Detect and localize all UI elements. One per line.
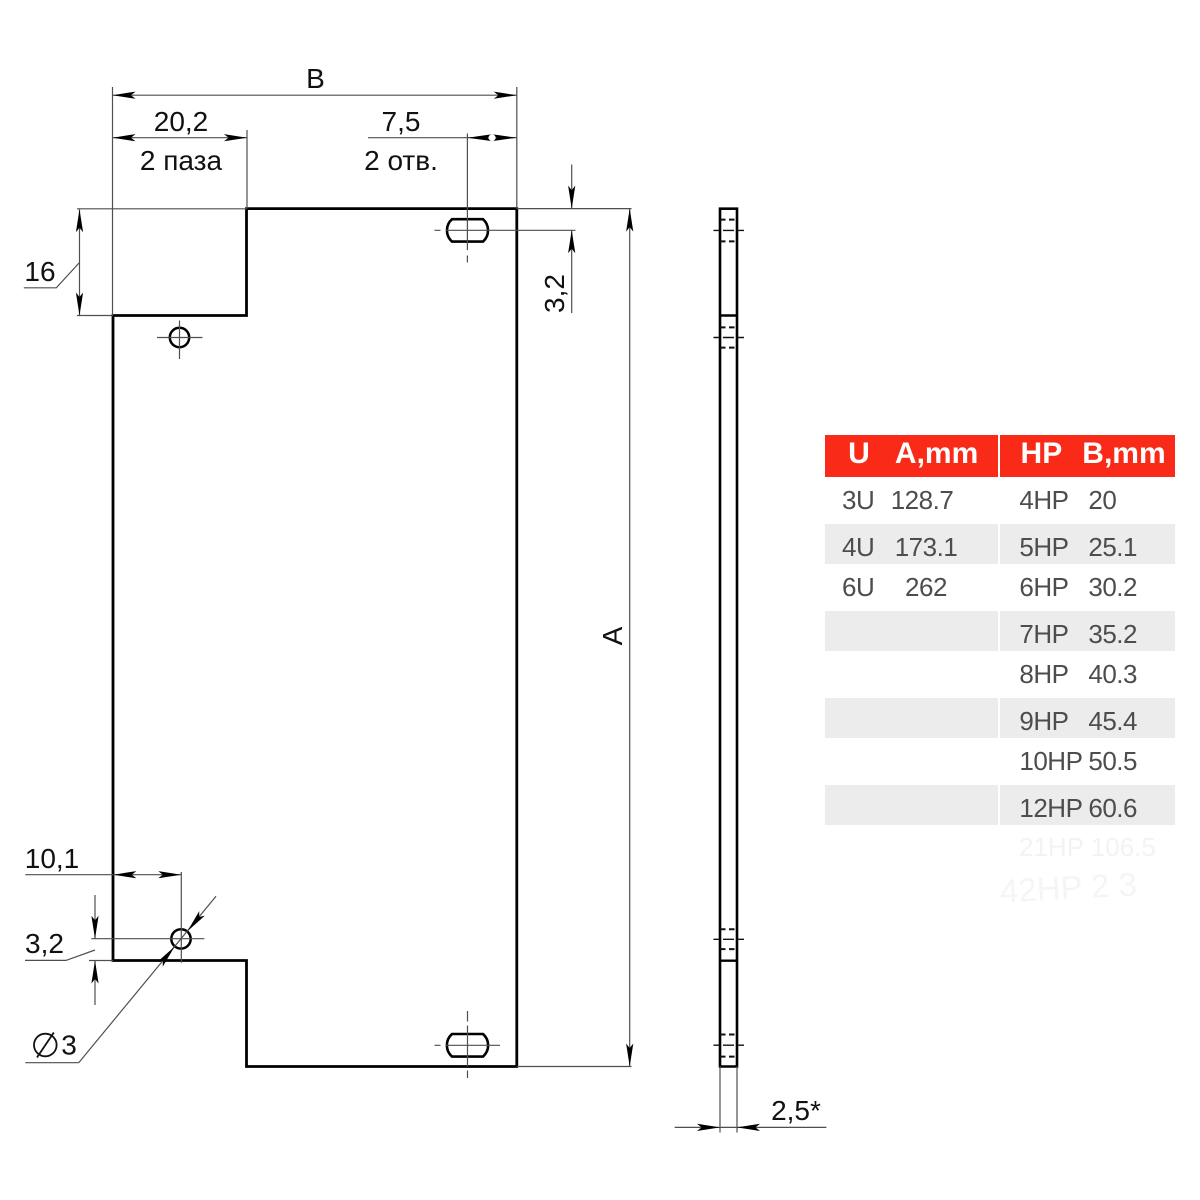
left table block: U / A,mm	[825, 434, 998, 436]
svg-text:2 отв.: 2 отв.	[364, 145, 438, 176]
dimension 16 leader	[24, 263, 80, 288]
side view hidden lines top hole	[720, 327, 737, 347]
svg-text:A: A	[597, 626, 628, 645]
dimension 3,2 bottom-left lines	[94, 895, 96, 1005]
svg-text:20,2: 20,2	[154, 106, 209, 137]
side view centerline top slot	[714, 229, 745, 231]
dimension diameter 3 label	[34, 1034, 57, 1057]
top slot centerline vertical	[466, 134, 468, 263]
svg-text:3: 3	[61, 1030, 77, 1061]
panel front view outline	[113, 209, 517, 1067]
top hole crosshair	[157, 321, 203, 360]
dimension diameter 3 leader	[25, 896, 216, 1062]
side view centerline bottom slot	[714, 1044, 745, 1046]
dimension A line	[629, 209, 631, 1067]
side view centerline bottom hole	[714, 938, 745, 940]
side view centerline top hole	[714, 337, 745, 339]
size table	[0, 0, 1, 1]
side view edge line bottom notch	[720, 960, 737, 962]
dimension 20,2 line	[113, 137, 248, 139]
bottom slot (obround hole)	[447, 1034, 488, 1057]
dimension 7,5 line	[368, 137, 517, 139]
svg-text:2,5*: 2,5*	[771, 1095, 821, 1126]
svg-text:B: B	[306, 63, 325, 94]
side view edge line top notch	[720, 314, 737, 316]
top slot centerline horizontal	[435, 229, 576, 231]
top hole (round 3mm)	[170, 328, 189, 347]
dimension 16 extension lines	[77, 209, 247, 316]
svg-text:16: 16	[24, 256, 55, 287]
dimension 16 line	[79, 210, 81, 316]
top slot (obround hole)	[447, 219, 488, 241]
dimension 2,5 line	[675, 1126, 827, 1128]
dimension 3,2 top-right extension lines	[517, 208, 632, 210]
svg-text:3,2: 3,2	[25, 928, 64, 959]
bottom slot centerline vertical	[467, 1011, 469, 1078]
bottom hole crosshair	[91, 872, 204, 963]
bottom hole (round 3mm)	[171, 929, 190, 948]
dimension 20,2 extension line	[246, 130, 248, 209]
svg-text:10,1: 10,1	[25, 843, 80, 874]
svg-text:3,2: 3,2	[539, 274, 570, 313]
side view hidden lines bottom slot	[720, 1035, 737, 1057]
dimension A extension line bottom	[517, 1066, 632, 1068]
side view outline	[720, 209, 737, 1067]
svg-text:2 паза: 2 паза	[140, 145, 223, 176]
dimension 10,1 line	[25, 874, 181, 876]
dimension B line	[113, 94, 517, 96]
dimension 3,2 top-right lines	[571, 165, 573, 314]
faint ghost text below table	[1019, 832, 1156, 863]
dimension B extension lines	[113, 87, 517, 316]
side view hidden lines bottom hole	[720, 929, 737, 949]
bottom slot centerline horizontal	[435, 1044, 501, 1046]
dimension 2,5 extension lines	[720, 1067, 737, 1133]
dimension 3,2 bottom-left leader	[25, 950, 95, 960]
dimension 3,2 bottom-left extension line	[89, 960, 113, 962]
right table block: HP / B,mm	[1000, 434, 1175, 436]
svg-text:7,5: 7,5	[382, 106, 421, 137]
side view hidden lines top slot	[720, 220, 737, 242]
